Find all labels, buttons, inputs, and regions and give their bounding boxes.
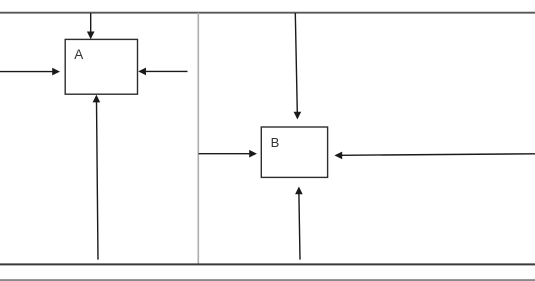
lane divider line bbox=[197, 13, 199, 265]
lower band line bbox=[0, 279, 535, 281]
arrow into A from bottom bbox=[93, 95, 101, 260]
box A bbox=[65, 39, 137, 94]
arrow into A from left bbox=[0, 68, 60, 76]
arrow into A from top bbox=[87, 13, 95, 39]
box B bbox=[261, 127, 327, 177]
arrow into B from left bbox=[199, 150, 258, 158]
top border line bbox=[0, 12, 535, 14]
arrow into B from bottom bbox=[295, 187, 303, 260]
bottom border line bbox=[0, 263, 535, 265]
arrow into B from top bbox=[294, 13, 302, 120]
svg-text:A: A bbox=[74, 47, 83, 62]
svg-text:B: B bbox=[271, 135, 280, 150]
arrow into B from right bbox=[334, 152, 535, 160]
arrow into A from right bbox=[138, 68, 187, 76]
